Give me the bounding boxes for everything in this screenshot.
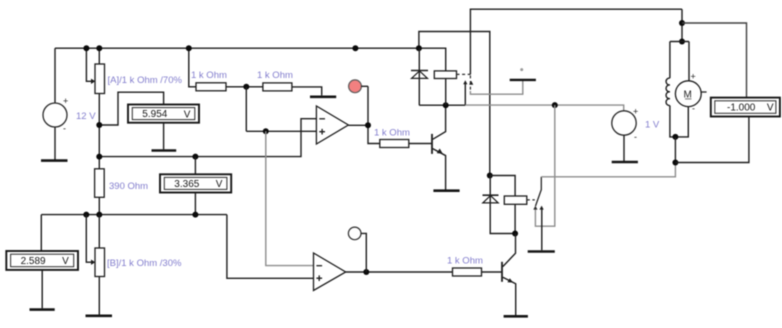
wire motor bottom node [672,134,678,166]
ground after R3 [292,87,336,97]
relay K2 contact arm [536,177,542,206]
svg-text:1 k Ohm: 1 k Ohm [191,70,227,81]
wire diode D1 to coil bottom node [419,102,465,108]
svg-text:1 k Ohm: 1 k Ohm [447,256,483,267]
svg-text:3.365: 3.365 [174,179,199,190]
voltmeter U3 2.589 [6,215,78,270]
wire 1V line gray [465,102,623,111]
ground for potentiometer B [86,277,113,316]
relay K1 linkage dashes [457,74,471,91]
svg-text:+: + [63,96,68,106]
svg-text:V: V [62,256,69,267]
relay K1 pivot dot [520,68,523,71]
wire mid rail to op-amp minus [96,119,316,160]
svg-text:+: + [633,107,638,117]
svg-text:+: + [691,72,696,82]
svg-text:5.954: 5.954 [142,109,167,120]
motor branch bracket top [670,42,689,82]
relay K1 contact common wire up [470,9,682,74]
node top rail dots [83,45,89,51]
diode D2 (relay K2 flyback) [483,176,516,234]
wire lower rail [41,197,227,217]
voltage source V1 12V [43,48,96,160]
wire gray relay K2 contact to 1V line [535,105,554,226]
wire relay K2 common to motor [541,163,675,177]
resistor R5 1 k Ohm [447,256,502,277]
wire rail to relay K2 branch [416,32,490,176]
relay K2 coil [504,196,527,237]
resistor R1 390 Ohm [95,169,149,198]
svg-text:-: - [634,132,637,142]
svg-text:1 V: 1 V [645,120,660,131]
wire op-amp U4 output [348,86,379,143]
svg-text:[B]/1 k Ohm /30%: [B]/1 k Ohm /30% [107,258,182,269]
voltmeter U6 -1.000 [711,98,780,117]
relay K1 contact gray path [470,81,522,94]
potentiometer A wiper wire [86,48,95,84]
ground for Q2 [504,315,528,318]
voltmeter U2 3.365 [160,157,231,215]
wire inductor bottom [670,106,688,137]
wire R2 feed from rail [186,45,196,87]
relay K2 contact arrow a [533,206,537,210]
wire top rail [55,48,446,71]
transistor Q1 [432,105,446,190]
inductor L1 [666,78,670,105]
wire node to op-amp plus [246,87,316,135]
wire gray to op-amp 2 minus [266,131,314,265]
wire op-amp U5 output [346,269,453,275]
resistor R2 1 k Ohm [191,70,227,91]
svg-text:[A]/1 k Ohm /70%: [A]/1 k Ohm /70% [108,75,183,86]
ground for V2 [612,161,638,164]
svg-text:12 V: 12 V [76,111,96,122]
motor M1 [675,72,706,114]
resistor R4 1 k Ohm [374,128,432,148]
svg-text:-: - [63,124,66,134]
voltage source V2 1V [612,107,660,162]
svg-text:1 k Ohm: 1 k Ohm [374,128,410,139]
LED probe red [349,45,368,93]
resistor R3 1 k Ohm [257,70,293,91]
wire relay K2 branch node [487,173,515,197]
svg-text:V: V [216,179,223,190]
wire voltmeter U1 feed [96,92,163,128]
svg-text:-: - [692,104,695,114]
ground for V1 [41,159,68,162]
wire op-amp U5 plus feed [227,215,314,279]
wire voltmeter U6 top feed [682,23,747,98]
potentiometer B wiper wire [86,215,95,265]
relay K1 contact arrow b [469,81,473,85]
wire voltmeter U6 return [675,117,749,163]
ground for voltmeter U3 [30,270,55,310]
voltmeter U1 5.954 [128,105,199,123]
transistor Q2 [502,234,516,316]
relay K2 linkage dashes [527,199,535,201]
ground for Q1 [433,189,459,192]
ground for voltmeter U1 [152,123,177,151]
relay K1 contact arrow a [463,80,467,105]
ground for relay K2 contact [528,250,555,253]
relay K2 contact arrow b [540,206,544,251]
op-amp U4 [316,106,348,144]
potentiometer B body [95,215,182,277]
svg-text:390 Ohm: 390 Ohm [109,181,148,192]
potentiometer A body [95,48,182,169]
relay K1 contact bar [510,79,536,81]
svg-text:-1.000: -1.000 [727,103,756,114]
op-amp U5 [314,253,346,291]
wire motor top [679,9,685,44]
svg-text:V: V [767,103,774,114]
relay K1 coil [434,71,456,105]
LED probe white [348,227,366,272]
svg-text:1 k Ohm: 1 k Ohm [257,70,293,81]
svg-text:V: V [184,109,191,120]
diode D1 (relay K1 flyback) [411,48,428,105]
svg-text:2.589: 2.589 [21,256,46,267]
wire R2 to R3 [226,84,263,90]
